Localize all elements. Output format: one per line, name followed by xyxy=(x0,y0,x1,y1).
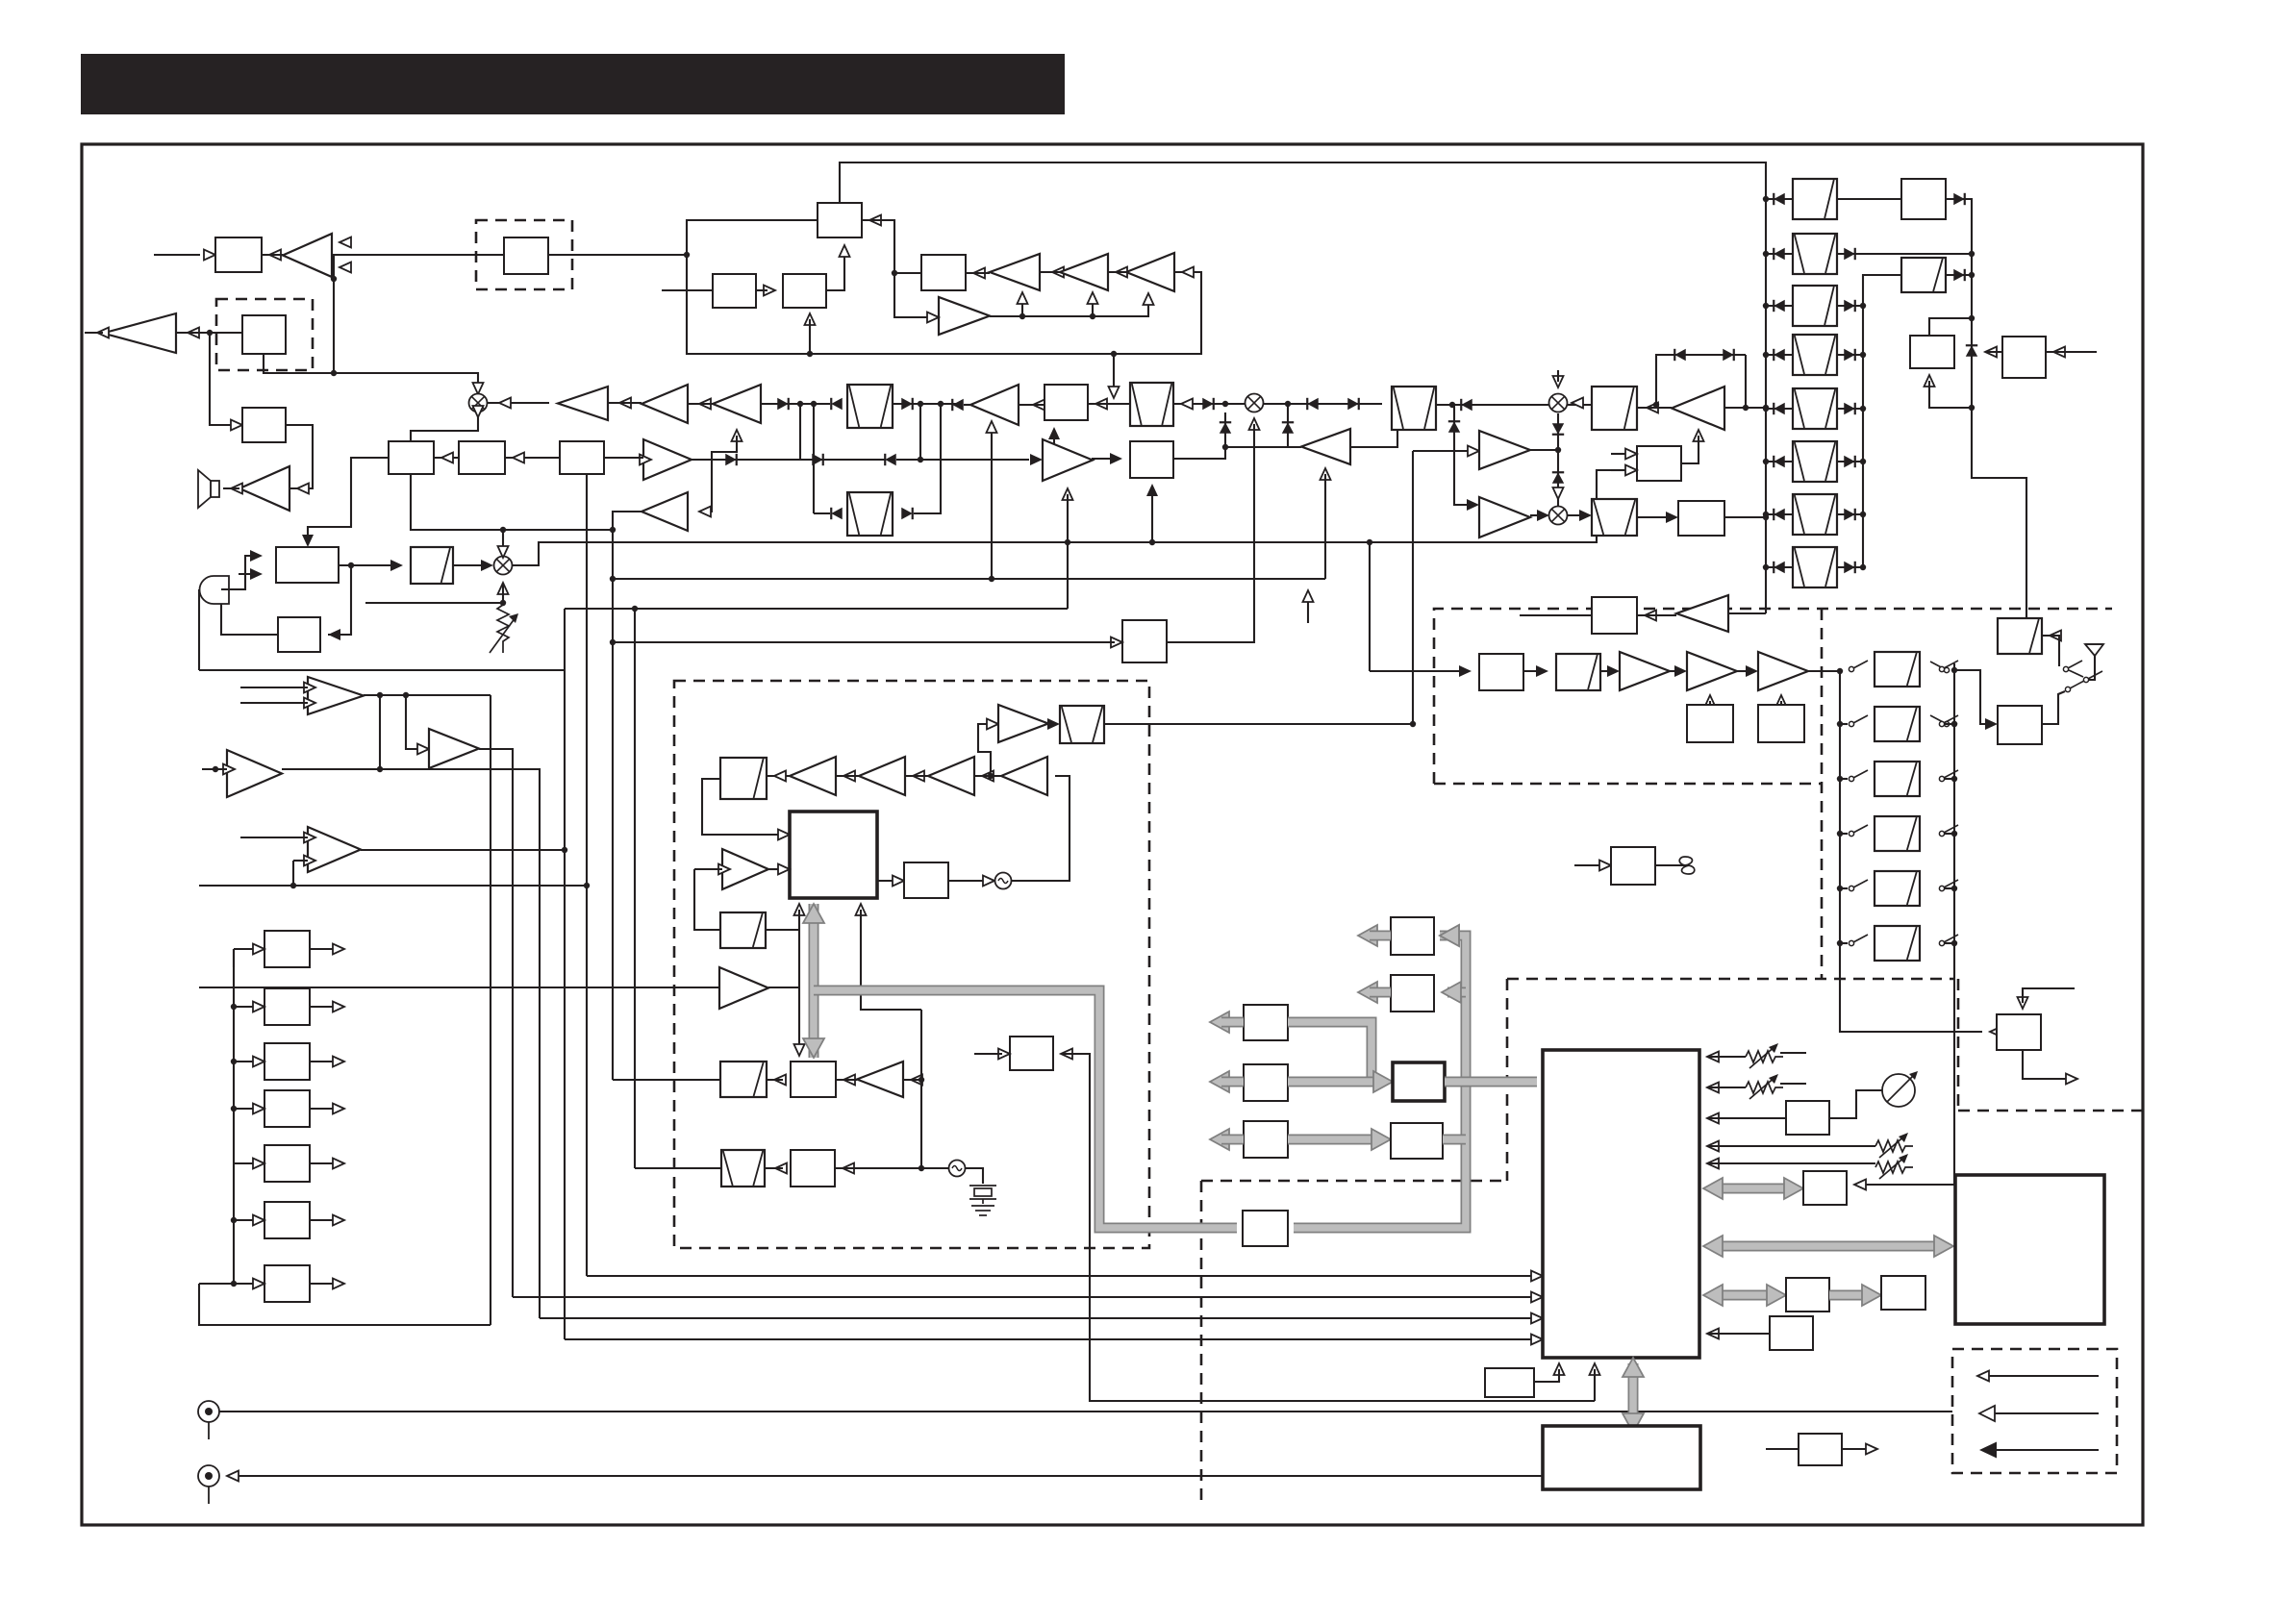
diode mid path E xyxy=(885,454,896,465)
wire TB4 to TB2 control xyxy=(1092,298,1094,316)
open arrowhead BFO control xyxy=(1303,590,1314,602)
diode filter F3 left xyxy=(831,508,843,519)
bus arrowhead N1 left xyxy=(1703,1285,1723,1306)
open arrowhead pin3 xyxy=(1707,1113,1719,1124)
junction LPF 5 right xyxy=(1951,886,1957,891)
wire A4 to A3 xyxy=(434,457,459,459)
junction path B xyxy=(811,401,817,407)
open arrowhead TG2 control xyxy=(1705,695,1716,707)
wire low path W xyxy=(814,512,830,514)
box B4 xyxy=(921,255,966,290)
open arrowhead M2 top xyxy=(498,546,509,558)
control box E2 xyxy=(264,988,310,1025)
amp TB2 xyxy=(1060,254,1108,290)
diode bank row 4 right xyxy=(1844,349,1855,361)
open arrowhead into A3 xyxy=(441,453,453,463)
wire TE4 in1 xyxy=(240,837,308,838)
open arrowhead E5 in xyxy=(253,1159,264,1169)
bus PLL data vertical xyxy=(809,904,819,1058)
wire LPF bus left xyxy=(1839,671,1841,943)
junction TF8 feed xyxy=(919,1077,924,1083)
wire C3 west stub xyxy=(1520,614,1592,616)
wire box F11 to F11f xyxy=(767,1079,783,1081)
bus RF3 to CPU xyxy=(1466,1077,1537,1087)
amp TF6 xyxy=(928,757,974,795)
wire D3 control to bus xyxy=(1929,381,1972,408)
open arrowhead into box A1 xyxy=(204,250,215,261)
wire bank row 6 right xyxy=(1837,461,1863,462)
diode bank row 2 right xyxy=(1844,248,1855,260)
bus LC to RF4 xyxy=(1288,1135,1383,1145)
wire supply rail xyxy=(199,669,565,671)
diode chain lower xyxy=(1552,472,1564,484)
switch LPF 1 left xyxy=(1849,661,1868,672)
wire P1 in xyxy=(1766,1448,1799,1450)
amp TB4 xyxy=(939,297,990,335)
wire bank to TR relay xyxy=(1840,943,1982,1032)
wire pin2 xyxy=(1707,1087,1746,1088)
solid arrowhead into M5 xyxy=(1537,510,1549,521)
wire TRX out xyxy=(2023,1050,2070,1079)
wire M5 to F6 xyxy=(1567,514,1584,516)
amp TB3 xyxy=(1126,253,1174,291)
box F13 xyxy=(1010,1037,1053,1070)
wire E6 out xyxy=(310,1219,337,1221)
bus arrowhead into bottom box xyxy=(1623,1413,1644,1433)
wire TE1 out xyxy=(364,694,491,696)
open arrowhead TB1 in xyxy=(1052,267,1064,278)
wire TBY out xyxy=(1225,446,1301,448)
box A4 xyxy=(459,441,505,474)
open arrowhead IC in1 xyxy=(1531,1271,1543,1282)
diode D1b out xyxy=(1953,193,1965,205)
wire LPF 4 right xyxy=(1945,833,1954,835)
open arrowhead E6 out xyxy=(333,1215,344,1226)
wire OSC1 to TF7 base xyxy=(1011,776,1070,881)
speaker xyxy=(198,470,219,508)
junction bus C2 xyxy=(1763,514,1769,520)
switch pole xyxy=(2083,671,2102,683)
crystal X1 xyxy=(969,1186,996,1204)
wire B7 feed xyxy=(613,641,1115,643)
wire D2 box to mixer M1 xyxy=(264,354,478,385)
junction loop D1 xyxy=(684,252,690,258)
wire F2 to B5 xyxy=(1088,403,1130,405)
wire M4 LO stub xyxy=(1557,370,1559,382)
open arrowhead TB11 in xyxy=(699,507,711,517)
junction right bus D2b xyxy=(1969,272,1975,278)
bus arrowhead into N2 xyxy=(1862,1285,1881,1306)
diode filter F1 left xyxy=(831,398,843,410)
title bar xyxy=(81,54,1065,114)
amp TC2 xyxy=(1479,431,1530,469)
AF box A6 xyxy=(276,547,339,583)
junction LPF bus top xyxy=(1837,668,1843,674)
junction TE1 a xyxy=(377,692,383,698)
open arrowhead TB4 in xyxy=(927,312,939,323)
bus arrowhead LA out xyxy=(1210,1012,1229,1033)
wire TA3 to speaker xyxy=(223,487,239,489)
antenna filter xyxy=(1998,618,2042,654)
bus arrowhead LC out xyxy=(1210,1129,1229,1150)
wire E2 out xyxy=(310,1006,337,1008)
open arrowhead TB2 in xyxy=(1116,267,1127,278)
wire A5 to A4 xyxy=(505,457,560,459)
wire TB4 to TB1 control xyxy=(1021,298,1023,316)
junction carrier B6 xyxy=(1149,539,1155,545)
amp TF2 xyxy=(722,849,768,889)
open arrowhead TA1 in 2 xyxy=(340,262,351,273)
junction TBY row xyxy=(1395,401,1400,407)
box B2 xyxy=(713,274,756,308)
wire G5 to TG3 xyxy=(1780,701,1782,705)
bus arrowhead into RF1 xyxy=(1440,925,1459,946)
wire TG2 to TG3 xyxy=(1737,670,1750,672)
box P1 xyxy=(1799,1434,1842,1465)
box G4 xyxy=(1687,705,1733,742)
open arrowhead TB9 in xyxy=(640,455,651,465)
wire M3 LO feed xyxy=(1167,424,1254,642)
wire mid path to TB10 xyxy=(896,459,1029,461)
wire F7 out xyxy=(1104,723,1413,725)
control box E6 xyxy=(264,1202,310,1238)
wire LPF 3 left xyxy=(1840,778,1848,780)
wire to TB8 xyxy=(964,404,970,406)
junction mid bus row 5 xyxy=(1860,406,1866,412)
diode C row 3 xyxy=(1461,399,1472,411)
wire VCO to G1 xyxy=(1370,670,1464,672)
open arrowhead into F5 xyxy=(1647,403,1658,413)
amp TE2 xyxy=(227,750,282,797)
bus CPU to bottom box xyxy=(1628,1363,1639,1427)
open arrowhead TB6 in xyxy=(699,399,711,410)
amp TE1 xyxy=(308,677,364,714)
wire TF8 base xyxy=(903,1079,921,1081)
open arrowhead IC in3 xyxy=(1531,1313,1543,1324)
wire E6 in xyxy=(234,1219,253,1221)
wire LPF 5 right xyxy=(1945,887,1954,889)
wire TE4 stub xyxy=(292,861,294,886)
junction path A xyxy=(797,401,803,407)
wire TB9 east xyxy=(692,459,800,461)
switch LPF 4 left xyxy=(1849,825,1868,837)
tuner sense box xyxy=(1611,847,1655,885)
open arrowhead into F2 xyxy=(1181,399,1193,410)
solid arrowhead into G1 xyxy=(1459,665,1472,677)
dashed PA boundary top xyxy=(1507,978,1955,981)
junction TE1 b xyxy=(403,692,409,698)
control box E7 xyxy=(264,1265,310,1302)
box A1 xyxy=(215,237,262,272)
wire antenna bus to TR box xyxy=(1862,663,1954,1185)
wire C2 to bus xyxy=(1724,516,1766,518)
wire control run 3 xyxy=(540,1317,1535,1319)
open arrowhead B7 in xyxy=(1111,637,1122,648)
wire TA1 to A1 xyxy=(262,254,283,256)
open arrowhead M2 bottom xyxy=(498,583,509,594)
wire AGC E xyxy=(1745,355,1747,408)
wire bank row 7 right xyxy=(1837,513,1863,515)
switch LPF 3 left xyxy=(1849,770,1868,782)
box in D1 xyxy=(504,237,548,274)
junction TE2 in xyxy=(213,766,218,772)
junction TBY B6 xyxy=(1222,444,1228,450)
solid arrowhead into G2 xyxy=(1536,665,1548,677)
variable resistor VR5 xyxy=(1875,1154,1913,1179)
wire D2b to right bus xyxy=(1946,274,1972,276)
wire F9 to TF2 xyxy=(694,868,722,870)
open arrowhead B1 in xyxy=(869,215,881,226)
meter M xyxy=(1882,1071,1918,1107)
solid arrowhead into M2 xyxy=(481,560,493,571)
open arrowhead TE1 in2 xyxy=(304,698,315,709)
open arrowhead TC1 control xyxy=(1694,430,1704,441)
wire A5 to TB9 xyxy=(604,457,643,459)
box K1 xyxy=(1485,1368,1534,1397)
solid arrowhead A6 in1 xyxy=(250,550,263,562)
diode filter F1 right xyxy=(901,398,913,410)
wire E5 in xyxy=(234,1162,253,1164)
dashed option box D2 xyxy=(216,299,313,370)
phono connector J2 xyxy=(198,1465,219,1504)
junction TBY row east xyxy=(1285,401,1291,407)
wire D3 top to bus xyxy=(1929,318,1972,336)
open arrowhead CPU bottom1 xyxy=(1554,1363,1565,1375)
amp TC3 xyxy=(1479,497,1530,537)
wire bus to TC1 xyxy=(1724,407,1766,409)
open arrowhead TA3 in xyxy=(297,484,309,494)
legend dashed box xyxy=(1952,1349,2117,1473)
wire tuner box out xyxy=(1655,864,1685,866)
wire E1 in xyxy=(234,948,253,950)
crystal filter F4 xyxy=(1392,387,1436,430)
wire F4 to M4 xyxy=(1436,404,1592,406)
amp TE3 xyxy=(429,729,479,768)
wire pin4 xyxy=(1707,1145,1875,1147)
wire VR2 stub xyxy=(1780,1052,1806,1054)
junction TE4 feed xyxy=(290,883,296,888)
open arrowhead P1 out xyxy=(1866,1444,1877,1455)
wire LPF 6 right xyxy=(1945,942,1954,944)
box D4 xyxy=(2002,337,2046,378)
wire bottom rail xyxy=(199,1284,491,1325)
open arrowhead E4 in xyxy=(253,1104,264,1114)
box B5 xyxy=(1044,385,1088,420)
open arrowhead TB7 control xyxy=(732,430,742,441)
wire TRX top stub xyxy=(2023,988,2075,1003)
open arrowhead M4 LO xyxy=(1553,376,1564,387)
logic box RF4 xyxy=(1391,1123,1443,1159)
wire E1 elbow xyxy=(233,949,235,967)
wire osc2 to F12b xyxy=(835,1167,949,1169)
box D3 xyxy=(1910,336,1954,368)
diode on right bus xyxy=(1966,345,1977,357)
junction loop B3 xyxy=(807,351,813,357)
junction bus row 3 xyxy=(1763,303,1769,309)
wire TB2 to TB1 xyxy=(1040,271,1060,273)
wire A6 out down to A7 xyxy=(328,565,351,635)
wire M3 east xyxy=(1264,403,1382,405)
open arrowhead into F8 xyxy=(774,771,786,782)
wire TE4 in2 xyxy=(293,860,308,862)
filter bank row 7 xyxy=(1793,494,1837,535)
wire bank row 2 left xyxy=(1766,253,1793,255)
wire D1b to right bus xyxy=(1946,198,1972,200)
amp TB11 xyxy=(642,492,688,531)
wire diode to TB7 xyxy=(761,403,830,405)
filter D2b xyxy=(1901,258,1946,292)
wire control run 2 xyxy=(513,1296,1535,1298)
diode bank row 8 left xyxy=(1774,562,1785,573)
open arrowhead J2 xyxy=(227,1471,239,1482)
wire TB3 to TB2 xyxy=(1108,271,1126,273)
wire F13 in stub xyxy=(974,1053,1002,1055)
open arrowhead TE2 in xyxy=(223,764,235,775)
IF unit box LA xyxy=(1244,1005,1288,1040)
switch LPF 6 right xyxy=(1939,935,1958,946)
box N2 xyxy=(1881,1276,1925,1310)
wire F9 out xyxy=(766,929,799,931)
wire control run 1 xyxy=(587,1275,1535,1277)
wire E4 in xyxy=(234,1108,253,1110)
PLL IC U1 xyxy=(790,812,877,898)
amp TB10 xyxy=(1043,439,1093,481)
wire south 610 xyxy=(586,474,588,1276)
bus arrowhead into N1 xyxy=(1767,1285,1786,1306)
wire LPF 3 right xyxy=(1945,778,1954,780)
wire rail east xyxy=(565,608,1068,610)
amp TF4 xyxy=(790,757,836,795)
box G1 xyxy=(1479,654,1523,690)
wire D2 to TA2 xyxy=(176,332,242,334)
dashed control boundary drop xyxy=(1200,1181,1203,1500)
solid arrowhead into F7 xyxy=(1047,718,1060,730)
wire A2 to amp TA3 xyxy=(286,425,313,488)
legend solid arrow xyxy=(1979,1442,1997,1459)
junction NB loop xyxy=(1111,351,1117,357)
wire bank row 7 left xyxy=(1766,513,1793,515)
wire A6 to attenuator A8 xyxy=(339,564,395,566)
box B1 xyxy=(818,203,862,237)
open arrowhead E4 out xyxy=(333,1104,344,1114)
wire to TE3 xyxy=(406,695,421,749)
box G5 xyxy=(1758,705,1804,742)
diode bank row 1 left xyxy=(1774,193,1785,205)
control box E5 xyxy=(264,1145,310,1182)
wire E7 feed xyxy=(199,1283,234,1285)
open arrowhead osc in xyxy=(983,876,994,887)
bus arrowhead into K2 xyxy=(1784,1178,1803,1199)
switch LPF 4 right xyxy=(1939,825,1958,837)
open arrowhead E1 out xyxy=(333,944,344,955)
wire TF6 to TF5 xyxy=(905,775,928,777)
wire TBY control xyxy=(1324,474,1326,579)
wire B6 to row xyxy=(1173,412,1225,459)
junction LPF 3 right xyxy=(1951,776,1957,782)
low pass filter 4 xyxy=(1875,816,1920,851)
box A2 xyxy=(242,408,286,442)
bus RF3 east xyxy=(1445,1077,1466,1087)
junction E4 xyxy=(231,1106,237,1112)
legend line 3 xyxy=(1991,1449,2099,1451)
wire south 510 xyxy=(490,695,491,1325)
dashed control boundary bottom xyxy=(1201,1180,1507,1183)
wire TC4 to C3 xyxy=(1637,614,1676,616)
wire N3 to CPU xyxy=(1707,1333,1770,1335)
wire noise blanker loop xyxy=(687,220,1201,354)
junction B5 riser xyxy=(1051,457,1057,462)
bus PLL data loop west xyxy=(814,990,1237,1228)
open arrowhead pin4 xyxy=(1707,1141,1719,1152)
crystal filter F2 xyxy=(1130,383,1173,426)
control box E3 xyxy=(264,1043,310,1080)
bus LB stub xyxy=(1221,1077,1244,1087)
wire mic rail xyxy=(198,589,200,670)
box F10 xyxy=(904,862,948,898)
junction M2 top xyxy=(500,527,506,533)
wire C1 in1 xyxy=(1611,453,1625,455)
wire TF7 to TF6 xyxy=(974,775,1001,777)
wire bank row 3 left xyxy=(1766,305,1793,307)
wire TB6 to TA4 xyxy=(608,402,642,404)
wire TE1 to TE2 node xyxy=(379,695,381,769)
bus LC stub xyxy=(1221,1135,1244,1145)
filter F9 xyxy=(720,912,766,948)
wire TB11 out xyxy=(613,512,642,530)
wire TF5 to TF4 xyxy=(836,775,859,777)
open arrowhead into M5 xyxy=(1553,487,1564,499)
coil symbol xyxy=(1679,857,1695,874)
bus CPU to N1 xyxy=(1711,1290,1778,1301)
wire G1 to G2 xyxy=(1523,670,1541,672)
junction mid bus row 3 xyxy=(1860,303,1866,309)
junction BFO xyxy=(610,576,616,582)
bus arrowhead into RF2 xyxy=(1442,982,1461,1003)
wire F10 to osc xyxy=(948,880,987,882)
wire TE1 in1 xyxy=(240,687,308,688)
wire riser to B4 xyxy=(894,272,921,274)
junction right bus row2 xyxy=(1969,251,1975,257)
amp TB8 xyxy=(970,385,1019,425)
junction VCO TC2 xyxy=(1410,721,1416,727)
wire D1 to loop xyxy=(548,254,687,256)
open arrowhead E3 out xyxy=(333,1057,344,1067)
box A5 xyxy=(560,441,604,474)
low pass filter 5 xyxy=(1875,871,1920,906)
meter driver box xyxy=(1786,1101,1829,1135)
wire mid path xyxy=(800,459,885,461)
wire P1 out xyxy=(1842,1448,1870,1450)
amp TF5 xyxy=(859,757,905,795)
bus RF4 stub xyxy=(1443,1135,1466,1145)
legend open arrow mid xyxy=(1979,1406,1995,1421)
solid arrowhead into A8 xyxy=(390,560,403,571)
junction E3 xyxy=(231,1059,237,1064)
junction TX IF tap xyxy=(1367,539,1372,545)
junction ant bus RX xyxy=(1951,721,1957,727)
switch contact B xyxy=(1930,715,1950,727)
wire TB10 control drop xyxy=(1067,494,1069,609)
dashed divider xyxy=(1821,609,1824,979)
RX input filter box xyxy=(1998,706,2042,744)
attenuator A8 xyxy=(411,547,453,584)
bus CPU to K2 xyxy=(1711,1184,1796,1194)
wire M2 bottom west xyxy=(365,602,503,604)
junction VCO tap xyxy=(988,773,994,779)
open arrowhead TA4 in xyxy=(619,398,631,409)
wire bus to RX filter xyxy=(1954,670,1990,724)
wire TC3 to M5 xyxy=(1530,514,1542,516)
